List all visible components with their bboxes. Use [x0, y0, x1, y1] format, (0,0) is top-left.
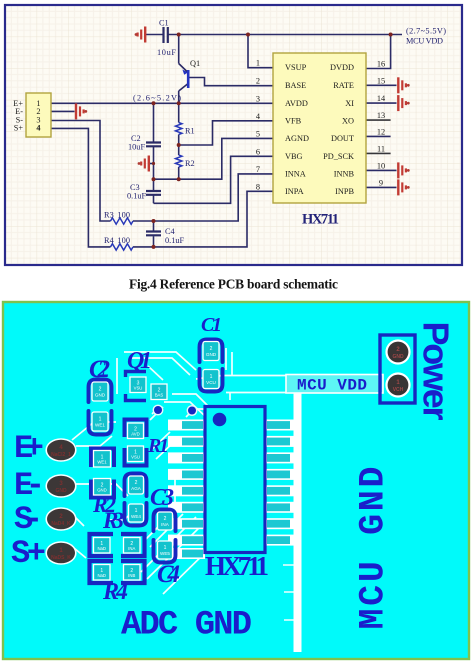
svg-text:VBG: VBG	[285, 152, 303, 161]
svg-text:AGND: AGND	[285, 134, 309, 143]
svg-text:R3 100: R3 100	[104, 211, 130, 220]
svg-text:INNB: INNB	[334, 169, 355, 178]
svg-text:NaD4_K: NaD4_K	[51, 521, 71, 527]
svg-text:Fig.4 Reference PCB board sche: Fig.4 Reference PCB board schematic	[129, 277, 338, 292]
svg-text:16: 16	[377, 60, 385, 69]
svg-text:WE1: WE1	[95, 423, 105, 428]
svg-text:R4 100: R4 100	[104, 236, 130, 245]
svg-text:INPB: INPB	[335, 187, 354, 196]
svg-text:WE4: WE4	[131, 514, 141, 519]
svg-text:6: 6	[256, 147, 260, 156]
svg-text:10uF: 10uF	[128, 143, 145, 152]
svg-text:MCU GND: MCU GND	[354, 467, 394, 630]
svg-text:9: 9	[379, 178, 383, 187]
svg-text:10uF: 10uF	[157, 48, 176, 57]
svg-text:DVDD: DVDD	[330, 63, 354, 72]
svg-text:C1: C1	[159, 19, 169, 28]
svg-text:R2: R2	[185, 159, 195, 168]
svg-text:R3: R3	[102, 508, 124, 533]
svg-text:C1: C1	[201, 314, 222, 336]
svg-text:VSU: VSU	[131, 454, 140, 459]
svg-text:BASE: BASE	[285, 81, 306, 90]
svg-text:NaCl2_1: NaCl2_1	[51, 452, 71, 458]
svg-text:Power: Power	[416, 322, 457, 421]
svg-text:R4: R4	[102, 579, 128, 605]
svg-text:VSUP: VSUP	[285, 63, 307, 72]
svg-text:RATE: RATE	[333, 81, 354, 90]
svg-text:PD_SCK: PD_SCK	[323, 152, 354, 161]
svg-text:MCU VDD: MCU VDD	[406, 37, 443, 46]
svg-text:15: 15	[377, 76, 385, 85]
svg-text:E-: E-	[14, 467, 45, 504]
svg-text:HX711: HX711	[302, 212, 339, 228]
svg-text:NaDS_K: NaDS_K	[51, 555, 71, 561]
svg-text:10: 10	[377, 161, 385, 170]
svg-text:XI: XI	[345, 99, 354, 108]
svg-text:S+: S+	[11, 535, 46, 572]
svg-text:INA: INA	[161, 522, 170, 527]
svg-text:AVD: AVD	[131, 431, 140, 436]
svg-text:VCU: VCU	[206, 380, 216, 385]
svg-text:GND: GND	[95, 393, 106, 398]
svg-text:NaD: NaD	[97, 573, 106, 578]
svg-text:INPA: INPA	[285, 187, 304, 196]
svg-text:GND: GND	[392, 354, 404, 360]
svg-text:ADC GND: ADC GND	[121, 607, 252, 645]
svg-text:INNA: INNA	[285, 169, 306, 178]
svg-text:S+: S+	[14, 124, 24, 133]
svg-text:MCU VDD: MCU VDD	[297, 377, 367, 395]
svg-text:13: 13	[377, 111, 385, 120]
svg-text:C4: C4	[157, 561, 180, 588]
svg-text:1: 1	[256, 59, 260, 68]
svg-text:4: 4	[36, 124, 40, 133]
svg-text:HX711: HX711	[205, 551, 269, 581]
svg-text:8: 8	[256, 182, 260, 191]
svg-text:INB: INB	[128, 573, 135, 578]
svg-text:NaD: NaD	[97, 546, 106, 551]
svg-text:C3: C3	[150, 485, 174, 511]
svg-text:C4: C4	[165, 227, 176, 236]
svg-text:R1: R1	[185, 127, 195, 136]
svg-text:Q1: Q1	[190, 59, 200, 68]
svg-text:WE1: WE1	[97, 459, 107, 464]
svg-text:INA: INA	[128, 546, 135, 551]
svg-text:E+: E+	[14, 430, 44, 467]
svg-text:R1: R1	[147, 435, 169, 457]
svg-text:GND: GND	[206, 352, 217, 357]
svg-text:XO: XO	[342, 116, 354, 125]
svg-text:3: 3	[256, 94, 260, 103]
svg-text:11: 11	[377, 144, 385, 153]
svg-text:WE5: WE5	[160, 551, 170, 556]
svg-text:5: 5	[256, 129, 260, 138]
svg-text:VCH: VCH	[393, 387, 404, 393]
svg-text:S-: S-	[14, 501, 43, 538]
svg-text:12: 12	[377, 127, 385, 136]
svg-text:VSU: VSU	[134, 385, 143, 390]
svg-text:C2: C2	[89, 356, 110, 383]
svg-text:0.1uF: 0.1uF	[165, 236, 185, 245]
svg-text:VFB: VFB	[285, 116, 302, 125]
svg-text:BAS: BAS	[155, 392, 164, 397]
svg-text:AGA: AGA	[131, 486, 142, 491]
svg-text:0.1uF: 0.1uF	[127, 192, 147, 201]
svg-text:7: 7	[256, 165, 260, 174]
svg-text:Q1: Q1	[127, 348, 152, 374]
svg-text:(2.6~5.2V): (2.6~5.2V)	[133, 94, 181, 103]
svg-text:14: 14	[377, 94, 386, 103]
svg-text:2: 2	[256, 77, 260, 86]
svg-text:(2.7~5.5V): (2.7~5.5V)	[406, 27, 446, 36]
svg-text:DOUT: DOUT	[331, 134, 354, 143]
svg-text:GND: GND	[55, 488, 67, 494]
svg-text:AVDD: AVDD	[285, 99, 308, 108]
